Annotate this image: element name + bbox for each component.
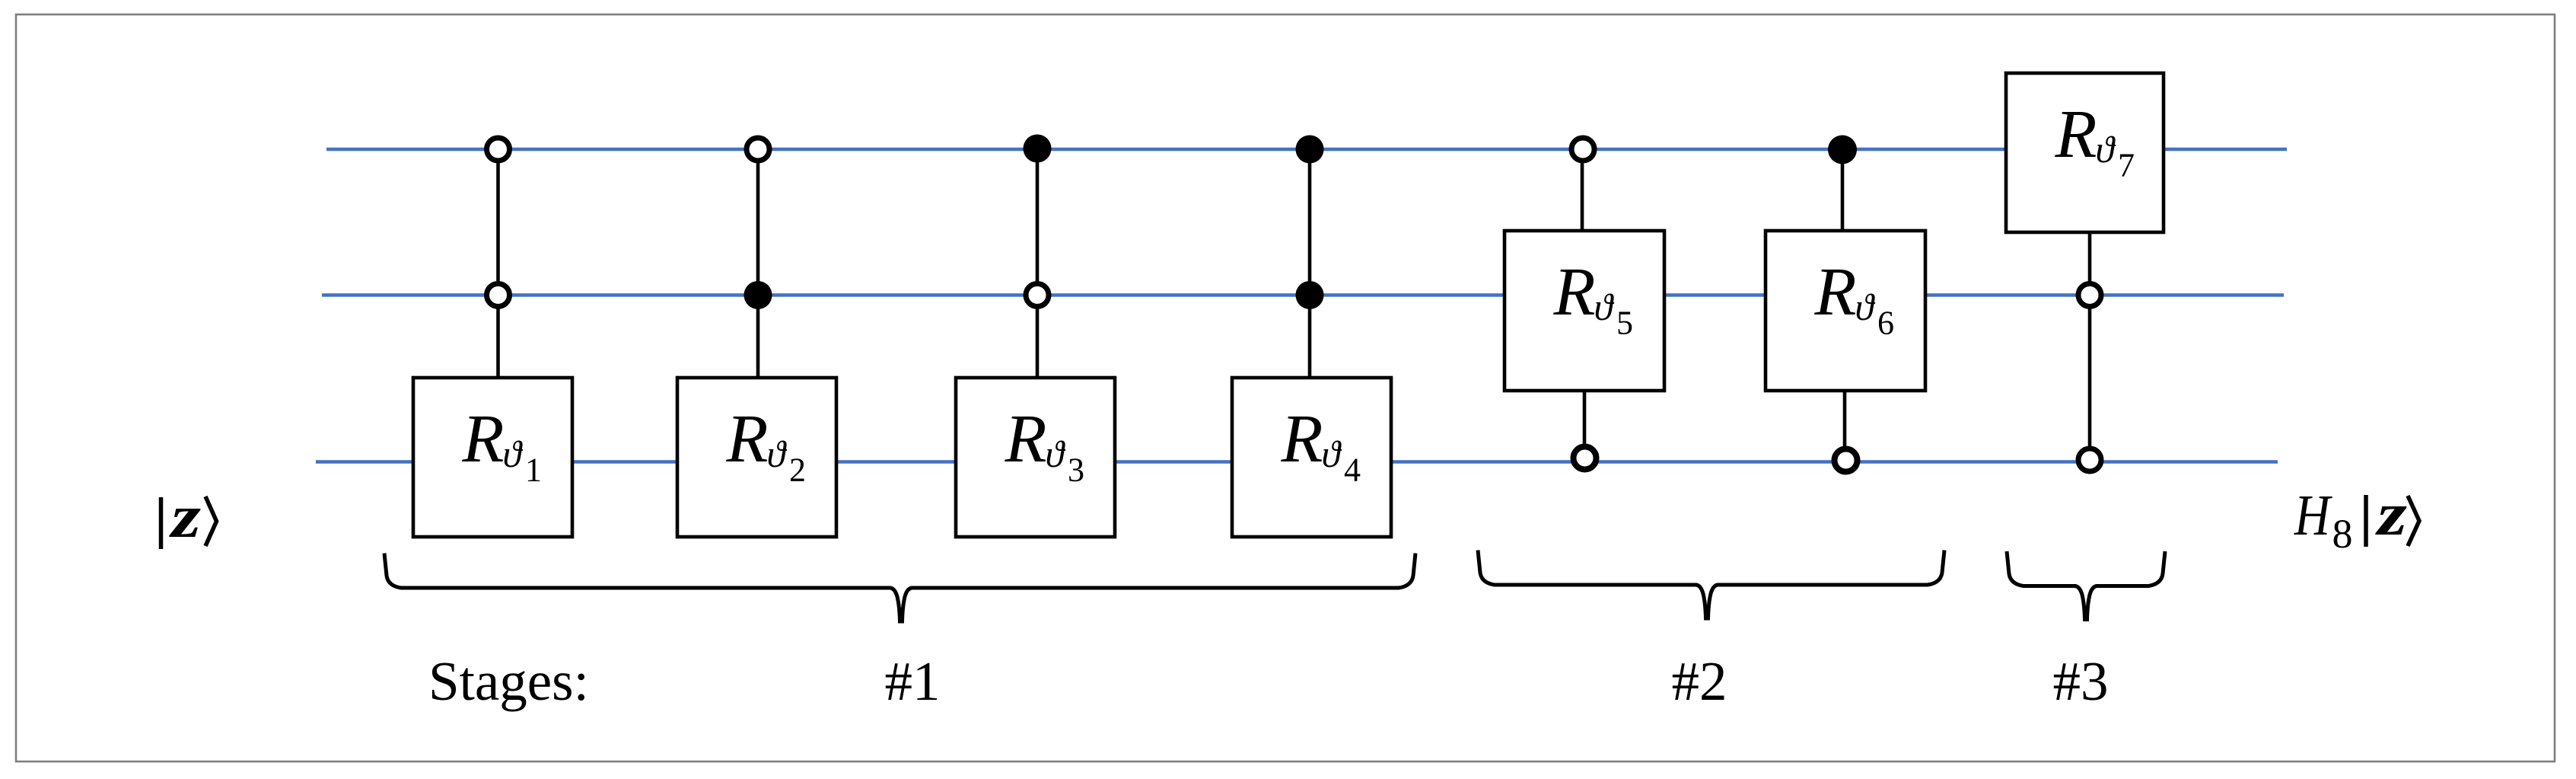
node: open control of R3 on q1 — [1026, 284, 1049, 307]
brace stage 1 — [384, 554, 1415, 622]
svg-text:R: R — [726, 401, 769, 477]
wire: control stem of gate R3 — [1036, 149, 1040, 378]
node: open control of R1 on q1 — [487, 284, 510, 307]
svg-text:8: 8 — [2332, 511, 2353, 557]
node: open control of R2 on q0 — [747, 138, 769, 161]
svg-text:R: R — [1281, 401, 1323, 477]
svg-text:4: 4 — [1344, 452, 1361, 489]
svg-text:#3: #3 — [2053, 650, 2109, 712]
node: input ket z label — [161, 482, 217, 550]
node: open target circle of R5 on q2 — [1574, 447, 1597, 470]
svg-text:Stages:: Stages: — [428, 650, 589, 712]
svg-text:2: 2 — [789, 452, 806, 489]
svg-text:ϑ: ϑ — [1046, 433, 1066, 475]
svg-text:ϑ: ϑ — [1322, 433, 1342, 475]
gate U2 box Rtheta2 — [677, 378, 836, 537]
svg-text:z: z — [169, 482, 201, 550]
svg-text:6: 6 — [1877, 305, 1894, 342]
gate U1 box Rtheta1 — [413, 378, 572, 537]
svg-text:7: 7 — [2118, 147, 2135, 184]
gate U3 box Rtheta3 — [956, 378, 1115, 537]
wire: control stem of gate R4 — [1308, 149, 1312, 378]
wire: upper control stem of gate R6 — [1841, 149, 1845, 231]
gate U6 box Rtheta6 — [1766, 231, 1925, 391]
wire q1 (middle qubit line) — [322, 293, 2284, 297]
svg-text:3: 3 — [1068, 452, 1084, 489]
node: filled control of R4 on q1 — [1296, 281, 1324, 309]
svg-text:ϑ: ϑ — [1855, 286, 1876, 328]
wire: lower stem of gate R7 — [2088, 232, 2092, 460]
node: open control of R7 on q1 — [2078, 284, 2101, 307]
svg-text:z: z — [2375, 480, 2407, 548]
node: filled control of R2 on q1 — [744, 281, 772, 309]
svg-text:ϑ: ϑ — [1594, 286, 1615, 328]
svg-text:R: R — [462, 401, 505, 477]
svg-text:ϑ: ϑ — [2096, 128, 2116, 171]
node: open control of R5 on q0 — [1571, 138, 1594, 161]
svg-text:R: R — [1553, 254, 1596, 330]
gate U4 box Rtheta4 — [1232, 378, 1391, 537]
gate U7 box Rtheta7 — [2006, 73, 2164, 232]
wire: control stem of gate R1 — [496, 149, 500, 378]
svg-text:H: H — [2294, 484, 2332, 548]
svg-text:R: R — [1005, 401, 1047, 477]
node: output H8 ket z label — [2294, 480, 2419, 557]
svg-text:ϑ: ϑ — [503, 433, 524, 475]
svg-text:#2: #2 — [1672, 650, 1727, 712]
wire q2 (bottom qubit line) — [316, 460, 2278, 464]
wire: lower stem of gate R6 — [1843, 390, 1847, 460]
node: filled control of R3 on q0 — [1024, 135, 1052, 163]
svg-text:5: 5 — [1616, 305, 1633, 342]
node: filled control of R4 on q0 — [1296, 136, 1324, 164]
svg-text:R: R — [2055, 97, 2097, 172]
svg-text:#1: #1 — [885, 650, 941, 712]
node: open control of R1 on q0 — [487, 138, 510, 161]
brace stage 2 — [1478, 551, 1944, 619]
svg-text:R: R — [1814, 254, 1857, 330]
wire: control stem of gate R2 — [756, 149, 760, 378]
wire: upper control stem of gate R5 — [1581, 149, 1584, 231]
wire q0 (top qubit line) — [326, 148, 2287, 152]
svg-text:ϑ: ϑ — [767, 433, 788, 475]
node: open target circle of R7 on q2 — [2078, 449, 2101, 471]
node: filled control of R6 on q0 — [1828, 136, 1857, 164]
svg-text:1: 1 — [525, 452, 542, 489]
brace stage 3 — [2007, 551, 2165, 620]
gate U5 box Rtheta5 — [1505, 231, 1664, 391]
wire: lower stem of gate R5 — [1583, 390, 1587, 458]
node: open target circle of R6 on q2 — [1835, 449, 1858, 472]
